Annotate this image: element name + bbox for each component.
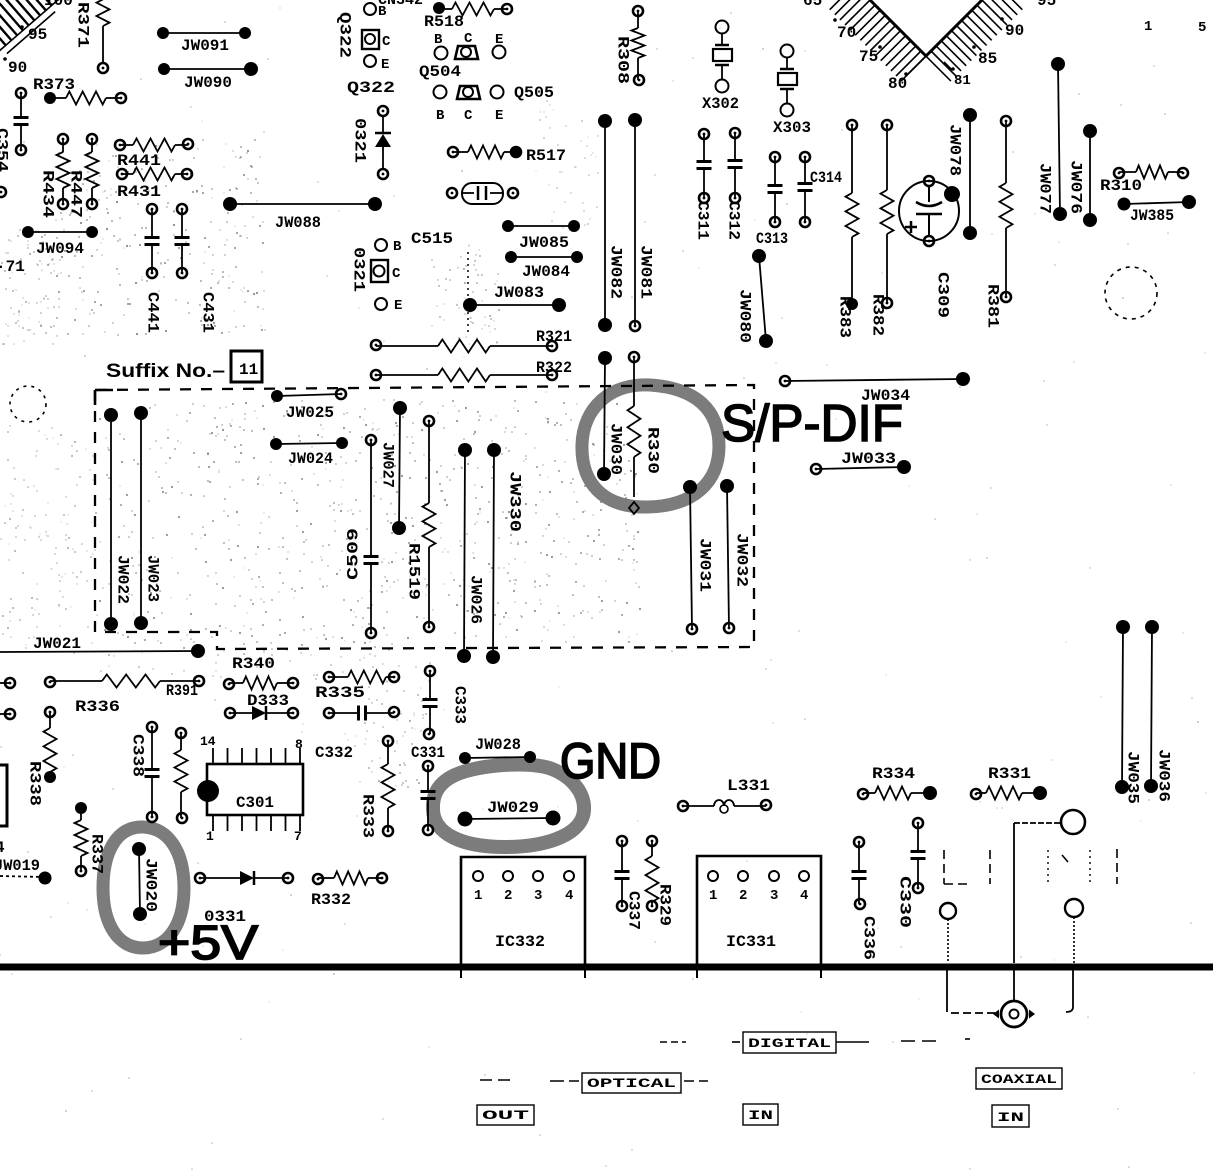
resistor R441: [115, 139, 193, 171]
svg-text:JW094: JW094: [36, 240, 84, 258]
label DIGITAL: [660, 1032, 970, 1053]
diode Q321: [351, 106, 392, 179]
svg-text:JW027: JW027: [379, 442, 397, 488]
dotted circle (hole marker): [10, 386, 46, 422]
svg-text:0321: 0321: [350, 247, 368, 292]
svg-text:COAXIAL: COAXIAL: [981, 1072, 1057, 1087]
capacitor C337: [615, 836, 643, 930]
svg-text:3: 3: [770, 888, 778, 904]
resistor R331: [971, 765, 1047, 800]
svg-text:GND: GND: [560, 733, 661, 789]
svg-text:JW091: JW091: [181, 37, 229, 55]
svg-text:95: 95: [28, 26, 47, 44]
svg-text:R441: R441: [117, 152, 161, 170]
crystal X302: [702, 21, 739, 114]
inductor L331: [678, 777, 771, 813]
annotation circle S/P-DIF: [582, 385, 719, 507]
svg-text:R1519: R1519: [405, 543, 423, 600]
svg-text:JW022: JW022: [114, 555, 132, 604]
capacitor C312: [725, 128, 743, 240]
svg-text:C330: C330: [896, 876, 914, 928]
svg-text:C337: C337: [625, 891, 643, 930]
svg-text:Q505: Q505: [514, 84, 554, 102]
transistor Q505: [434, 84, 555, 124]
svg-text:R308: R308: [614, 36, 632, 84]
svg-text:·71: ·71: [0, 258, 25, 276]
annotation text +5V: [158, 917, 258, 970]
svg-text:JW077: JW077: [1036, 163, 1054, 214]
svg-text:C301: C301: [236, 794, 274, 812]
wire JW023: [134, 406, 162, 630]
pad stub (edge) 2: [0, 709, 15, 719]
connector circle A: [1061, 810, 1085, 834]
svg-text:R434: R434: [39, 170, 57, 218]
annotation text S/P-DIF: [721, 395, 903, 453]
svg-text:100: 100: [44, 0, 73, 10]
svg-text:E: E: [394, 298, 402, 314]
resistor R518: [424, 2, 512, 31]
wire JW077: [1036, 57, 1068, 221]
resistor R391: [166, 682, 198, 823]
coaxial jack symbol: [947, 965, 1073, 1027]
svg-text:C431: C431: [199, 292, 217, 333]
resistor R310: [1100, 166, 1188, 196]
wire JW027: [379, 401, 408, 535]
resistor R335: [315, 671, 399, 703]
resistor R334: [858, 765, 937, 800]
wire JW025: [271, 389, 346, 422]
svg-text:0331: 0331: [204, 908, 246, 926]
svg-text:JW035: JW035: [1124, 751, 1142, 804]
svg-text:JW076: JW076: [1067, 160, 1085, 214]
svg-text:95: 95: [1037, 0, 1056, 10]
label Suffix No.: [106, 361, 225, 382]
svg-text:C311: C311: [694, 201, 712, 240]
svg-text:OPTICAL: OPTICAL: [587, 1076, 676, 1091]
svg-text:R334: R334: [872, 765, 915, 783]
svg-text:R333: R333: [359, 794, 377, 838]
resistor R337: [75, 802, 106, 876]
resistor R330: [628, 352, 662, 514]
scale mark 95: [20, 0, 73, 44]
wire JW330: [486, 443, 524, 664]
wire JW076: [1067, 124, 1098, 227]
svg-text:90: 90: [1005, 22, 1024, 40]
svg-text:70: 70: [837, 24, 856, 42]
capacitor C335: [324, 706, 399, 721]
svg-text:IN: IN: [997, 1110, 1024, 1125]
wire JW084: [505, 251, 583, 281]
capacitor C309: [899, 176, 960, 318]
svg-text:JW025: JW025: [286, 404, 334, 422]
svg-text:JW084: JW084: [522, 263, 570, 281]
svg-text:R337: R337: [88, 834, 106, 874]
label OUT: [477, 1105, 534, 1125]
capacitor C509: [345, 435, 379, 638]
capacitor C330: [896, 818, 926, 928]
svg-text:C509: C509: [345, 528, 363, 580]
svg-text:80: 80: [888, 75, 907, 93]
svg-text:C313: C313: [756, 230, 788, 248]
wire JW083: [463, 284, 566, 312]
svg-text:X303: X303: [773, 119, 811, 137]
resistor R517: [448, 146, 566, 166]
svg-text:IC332: IC332: [495, 933, 545, 951]
svg-text:JW080: JW080: [736, 289, 754, 343]
wire JW085: [502, 220, 580, 252]
svg-text:14: 14: [200, 734, 216, 749]
resistor R371: [74, 0, 110, 73]
scale mark 65: [803, 0, 822, 10]
svg-text:E: E: [495, 108, 503, 124]
dashed box corner piece: [95, 390, 113, 405]
svg-text:JW032: JW032: [733, 533, 751, 587]
resistor R333: [359, 736, 395, 838]
transistor Q504: [419, 31, 506, 81]
svg-text:JW029: JW029: [487, 799, 539, 817]
svg-text:R335: R335: [315, 684, 365, 702]
svg-text:JW030: JW030: [607, 423, 625, 475]
wire JW020: [132, 842, 160, 921]
svg-text:C: C: [392, 266, 401, 282]
crystal X303: [773, 45, 811, 138]
svg-text:R332: R332: [311, 891, 351, 909]
connector circle B: [940, 903, 956, 963]
resistor R447: [67, 134, 99, 218]
dashed outline box: [95, 385, 754, 649]
board edge notch (hatched V): [830, 0, 1023, 81]
transistor Q321: [350, 239, 403, 314]
svg-text:R518: R518: [424, 13, 464, 31]
svg-text:R517: R517: [526, 147, 566, 165]
svg-text:JW019: JW019: [0, 857, 40, 875]
svg-text:11: 11: [239, 361, 258, 379]
svg-text:R321: R321: [536, 328, 572, 346]
svg-text:JW031: JW031: [696, 538, 714, 592]
svg-text:Suffix No.–: Suffix No.–: [106, 361, 225, 382]
stub: [820, 965, 822, 978]
svg-text:JW082: JW082: [607, 245, 625, 299]
ic C301: [197, 734, 303, 844]
svg-text:90: 90: [8, 59, 27, 77]
label COAXIAL: [976, 1068, 1062, 1089]
svg-text:JW330: JW330: [506, 471, 524, 532]
scale mark 75: [859, 45, 882, 66]
svg-text:2: 2: [739, 888, 747, 904]
wire JW026: [457, 443, 485, 663]
scale mark 81: [951, 67, 971, 89]
wire JW033: [811, 450, 911, 474]
board edge (thick line): [0, 964, 1213, 971]
resistor R332: [311, 872, 387, 910]
svg-text:2: 2: [504, 888, 512, 904]
pad stub (edge): [0, 678, 15, 688]
svg-text:JW081: JW081: [637, 245, 655, 299]
svg-text:85: 85: [978, 50, 997, 68]
svg-text:8: 8: [295, 737, 303, 752]
svg-text:1: 1: [474, 888, 482, 904]
transistor Q322: [336, 3, 396, 97]
wire JW030: [597, 351, 625, 481]
svg-text:JW023: JW023: [144, 555, 162, 602]
svg-text:R381: R381: [984, 284, 1002, 328]
svg-text:JW385: JW385: [1130, 207, 1174, 225]
svg-text:C338: C338: [129, 734, 147, 777]
scale mark 90: [1000, 17, 1024, 40]
svg-text:1: 1: [709, 888, 717, 904]
wire JW091: [157, 27, 251, 55]
svg-text:IN: IN: [748, 1108, 773, 1123]
svg-text:R330: R330: [644, 427, 662, 474]
stub: [584, 965, 586, 978]
annotation circle +5V: [103, 827, 184, 948]
annotation text GND: [560, 733, 661, 789]
stub: [696, 965, 698, 978]
svg-text:C332: C332: [315, 744, 353, 762]
wire (dotted column): [467, 252, 469, 336]
svg-text:DIGITAL: DIGITAL: [748, 1036, 831, 1051]
connector circle C: [1065, 899, 1083, 963]
resistor R382: [869, 120, 894, 336]
svg-text:IC331: IC331: [726, 933, 776, 951]
wire to connector A: [1014, 823, 1061, 963]
ic IC331: [697, 856, 821, 968]
svg-text:C336: C336: [860, 916, 878, 960]
pin labels 1 5: [1144, 19, 1206, 36]
wire JW019: [0, 857, 52, 885]
svg-text:JW021: JW021: [33, 635, 81, 653]
svg-text:B: B: [378, 4, 387, 20]
capacitor C515: [411, 183, 518, 248]
resistor R383: [836, 120, 859, 338]
svg-text:Q322: Q322: [336, 12, 354, 58]
svg-text:R322: R322: [536, 359, 572, 377]
svg-text:E: E: [381, 57, 389, 73]
wire JW081: [628, 113, 655, 331]
svg-text:C: C: [464, 108, 473, 124]
svg-text:JW026: JW026: [467, 575, 485, 624]
svg-text:JW085: JW085: [519, 234, 569, 252]
scale mark 90: [3, 57, 27, 77]
wire JW080: [736, 249, 774, 348]
label IN (coaxial): [992, 1105, 1029, 1127]
dashed circle: [1105, 267, 1157, 319]
label 71 (edge): [0, 258, 25, 276]
resistor R431: [117, 168, 192, 202]
resistor R373: [33, 76, 126, 105]
capacitor C354: [0, 88, 29, 172]
svg-text:1: 1: [206, 829, 214, 844]
svg-text:JW083: JW083: [494, 284, 544, 302]
svg-text:R331: R331: [988, 765, 1031, 783]
scale mark 80: [888, 72, 908, 93]
svg-text:JW024: JW024: [288, 450, 333, 468]
capacitor C441: [144, 204, 162, 333]
svg-text:R338: R338: [26, 761, 44, 806]
svg-text:C354: C354: [0, 128, 11, 172]
svg-text:C314: C314: [810, 169, 842, 187]
diode D333: [225, 692, 298, 720]
wire JW022: [104, 408, 132, 631]
svg-text:4: 4: [800, 888, 808, 904]
resistor R340: [224, 655, 298, 690]
resistor R322: [371, 359, 572, 382]
wire JW094: [22, 226, 98, 258]
svg-text:R383: R383: [836, 296, 854, 338]
svg-text:B: B: [393, 239, 402, 255]
svg-text:4: 4: [565, 888, 573, 904]
svg-text:5: 5: [1198, 20, 1206, 36]
wire JW024: [270, 437, 348, 468]
svg-text:7: 7: [294, 829, 302, 844]
suffix number box 11: [231, 351, 262, 382]
wire JW385: [1118, 195, 1197, 225]
wire JW078: [946, 108, 978, 240]
svg-text:OUT: OUT: [482, 1108, 529, 1123]
stub: [460, 965, 462, 978]
connector outline dashes: [944, 849, 1117, 884]
svg-text:B: B: [436, 108, 445, 124]
capacitor C314: [798, 152, 843, 227]
annotation circle GND: [433, 764, 584, 847]
wire JW036: [1144, 620, 1173, 802]
capacitor C333: [423, 666, 469, 739]
svg-text:C515: C515: [411, 230, 453, 248]
svg-text:C441: C441: [144, 292, 162, 333]
svg-text:65: 65: [803, 0, 822, 10]
capacitor C313: [756, 152, 788, 248]
wire JW028: [459, 736, 536, 764]
svg-text:R336: R336: [75, 698, 120, 716]
label CN342: [378, 0, 423, 9]
svg-text:R340: R340: [232, 655, 275, 673]
svg-text:R310: R310: [1100, 177, 1142, 195]
capacitor C338: [129, 722, 160, 822]
svg-text:3: 3: [534, 888, 542, 904]
svg-text:R431: R431: [117, 183, 161, 201]
svg-text:Q322: Q322: [347, 79, 395, 97]
svg-text:C: C: [382, 34, 391, 50]
capacitor C431: [175, 204, 217, 333]
svg-text:JW036: JW036: [1155, 749, 1173, 802]
capacitor C331: [411, 744, 445, 835]
label IN (optical): [743, 1104, 778, 1125]
wire JW090: [158, 62, 258, 92]
pad (edge): [0, 187, 6, 197]
svg-text:JW078: JW078: [946, 124, 964, 176]
svg-text:C309: C309: [934, 272, 952, 318]
resistor R336: [45, 675, 204, 717]
svg-text:75: 75: [859, 48, 878, 66]
wire JW082: [598, 114, 625, 332]
capacitor C311: [694, 129, 712, 240]
wire JW031: [683, 480, 714, 634]
resistor R381: [984, 116, 1013, 328]
resistor R308: [614, 6, 645, 85]
svg-text:S/P-DIF: S/P-DIF: [721, 395, 903, 453]
wire JW029: [458, 799, 561, 827]
board edge hatching top-left corner: [0, 0, 66, 60]
svg-text:D333: D333: [247, 692, 289, 710]
svg-text:Q504: Q504: [419, 63, 461, 81]
svg-text:JW020: JW020: [142, 858, 160, 912]
svg-text:C333: C333: [451, 686, 469, 724]
svg-text:R382: R382: [869, 294, 887, 336]
diode D331: [195, 871, 293, 926]
svg-text:L331: L331: [727, 777, 770, 795]
wire JW032: [720, 479, 751, 633]
wire JW021: [0, 635, 205, 658]
ic IC332: [461, 857, 585, 968]
wire JW035: [1115, 620, 1142, 804]
wire JW034: [780, 372, 970, 405]
svg-text:JW090: JW090: [184, 74, 232, 92]
resistor R434: [39, 134, 70, 218]
resistor R329: [646, 836, 674, 926]
wire JW088: [223, 197, 382, 232]
svg-text:X302: X302: [702, 95, 739, 113]
svg-text:R391: R391: [166, 682, 198, 700]
resistor R338: [26, 707, 57, 806]
svg-text:C: C: [464, 31, 473, 47]
svg-text:C331: C331: [411, 744, 445, 762]
svg-text:1: 1: [1144, 19, 1152, 35]
scale mark 95: [1037, 0, 1056, 10]
svg-text:R447: R447: [67, 170, 85, 218]
capacitor C336: [852, 837, 878, 960]
component outline (edge, partial box): [0, 765, 7, 857]
resistor R321: [371, 328, 572, 353]
svg-text:81: 81: [954, 73, 971, 89]
scale mark 70: [833, 18, 856, 42]
svg-text:R329: R329: [656, 884, 674, 926]
svg-text:0321: 0321: [351, 118, 369, 163]
svg-text:JW088: JW088: [275, 214, 321, 232]
svg-text:C312: C312: [725, 201, 743, 240]
resistor R1519: [405, 416, 436, 632]
svg-text:R371: R371: [74, 2, 92, 48]
scale mark 85: [972, 45, 997, 68]
svg-text:4: 4: [0, 839, 5, 857]
label OPTICAL: [480, 1073, 708, 1093]
label C332: [315, 744, 353, 762]
svg-text:JW028: JW028: [475, 736, 521, 754]
